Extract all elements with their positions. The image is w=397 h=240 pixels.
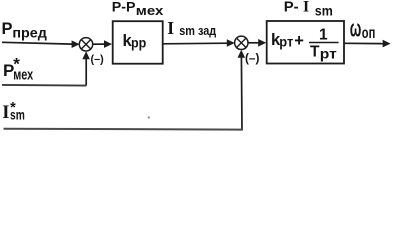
svg-text:*: * — [13, 55, 20, 74]
svg-text:оп: оп — [362, 25, 376, 42]
svg-text:ω: ω — [350, 16, 362, 43]
svg-text:Р-: Р- — [284, 0, 299, 16]
svg-text:I: I — [2, 103, 9, 123]
svg-text:пред: пред — [12, 24, 47, 40]
svg-text:sm зад: sm зад — [179, 23, 217, 38]
svg-text:(–): (–) — [245, 51, 259, 65]
svg-text:Р-Р: Р-Р — [112, 0, 136, 15]
svg-text:*: * — [10, 100, 16, 116]
svg-text:мех: мех — [136, 3, 164, 18]
svg-text:I: I — [167, 18, 174, 38]
svg-text:I: I — [303, 0, 309, 16]
svg-text:Р: Р — [2, 20, 13, 38]
svg-text:sm: sm — [315, 4, 333, 19]
svg-text:1: 1 — [319, 27, 328, 44]
svg-text:рт: рт — [320, 47, 337, 62]
svg-text:рр: рр — [131, 34, 146, 50]
svg-text:рт: рт — [279, 35, 293, 50]
svg-text:+: + — [294, 32, 304, 50]
svg-text:(–): (–) — [91, 54, 105, 66]
svg-text:Т: Т — [310, 43, 320, 60]
